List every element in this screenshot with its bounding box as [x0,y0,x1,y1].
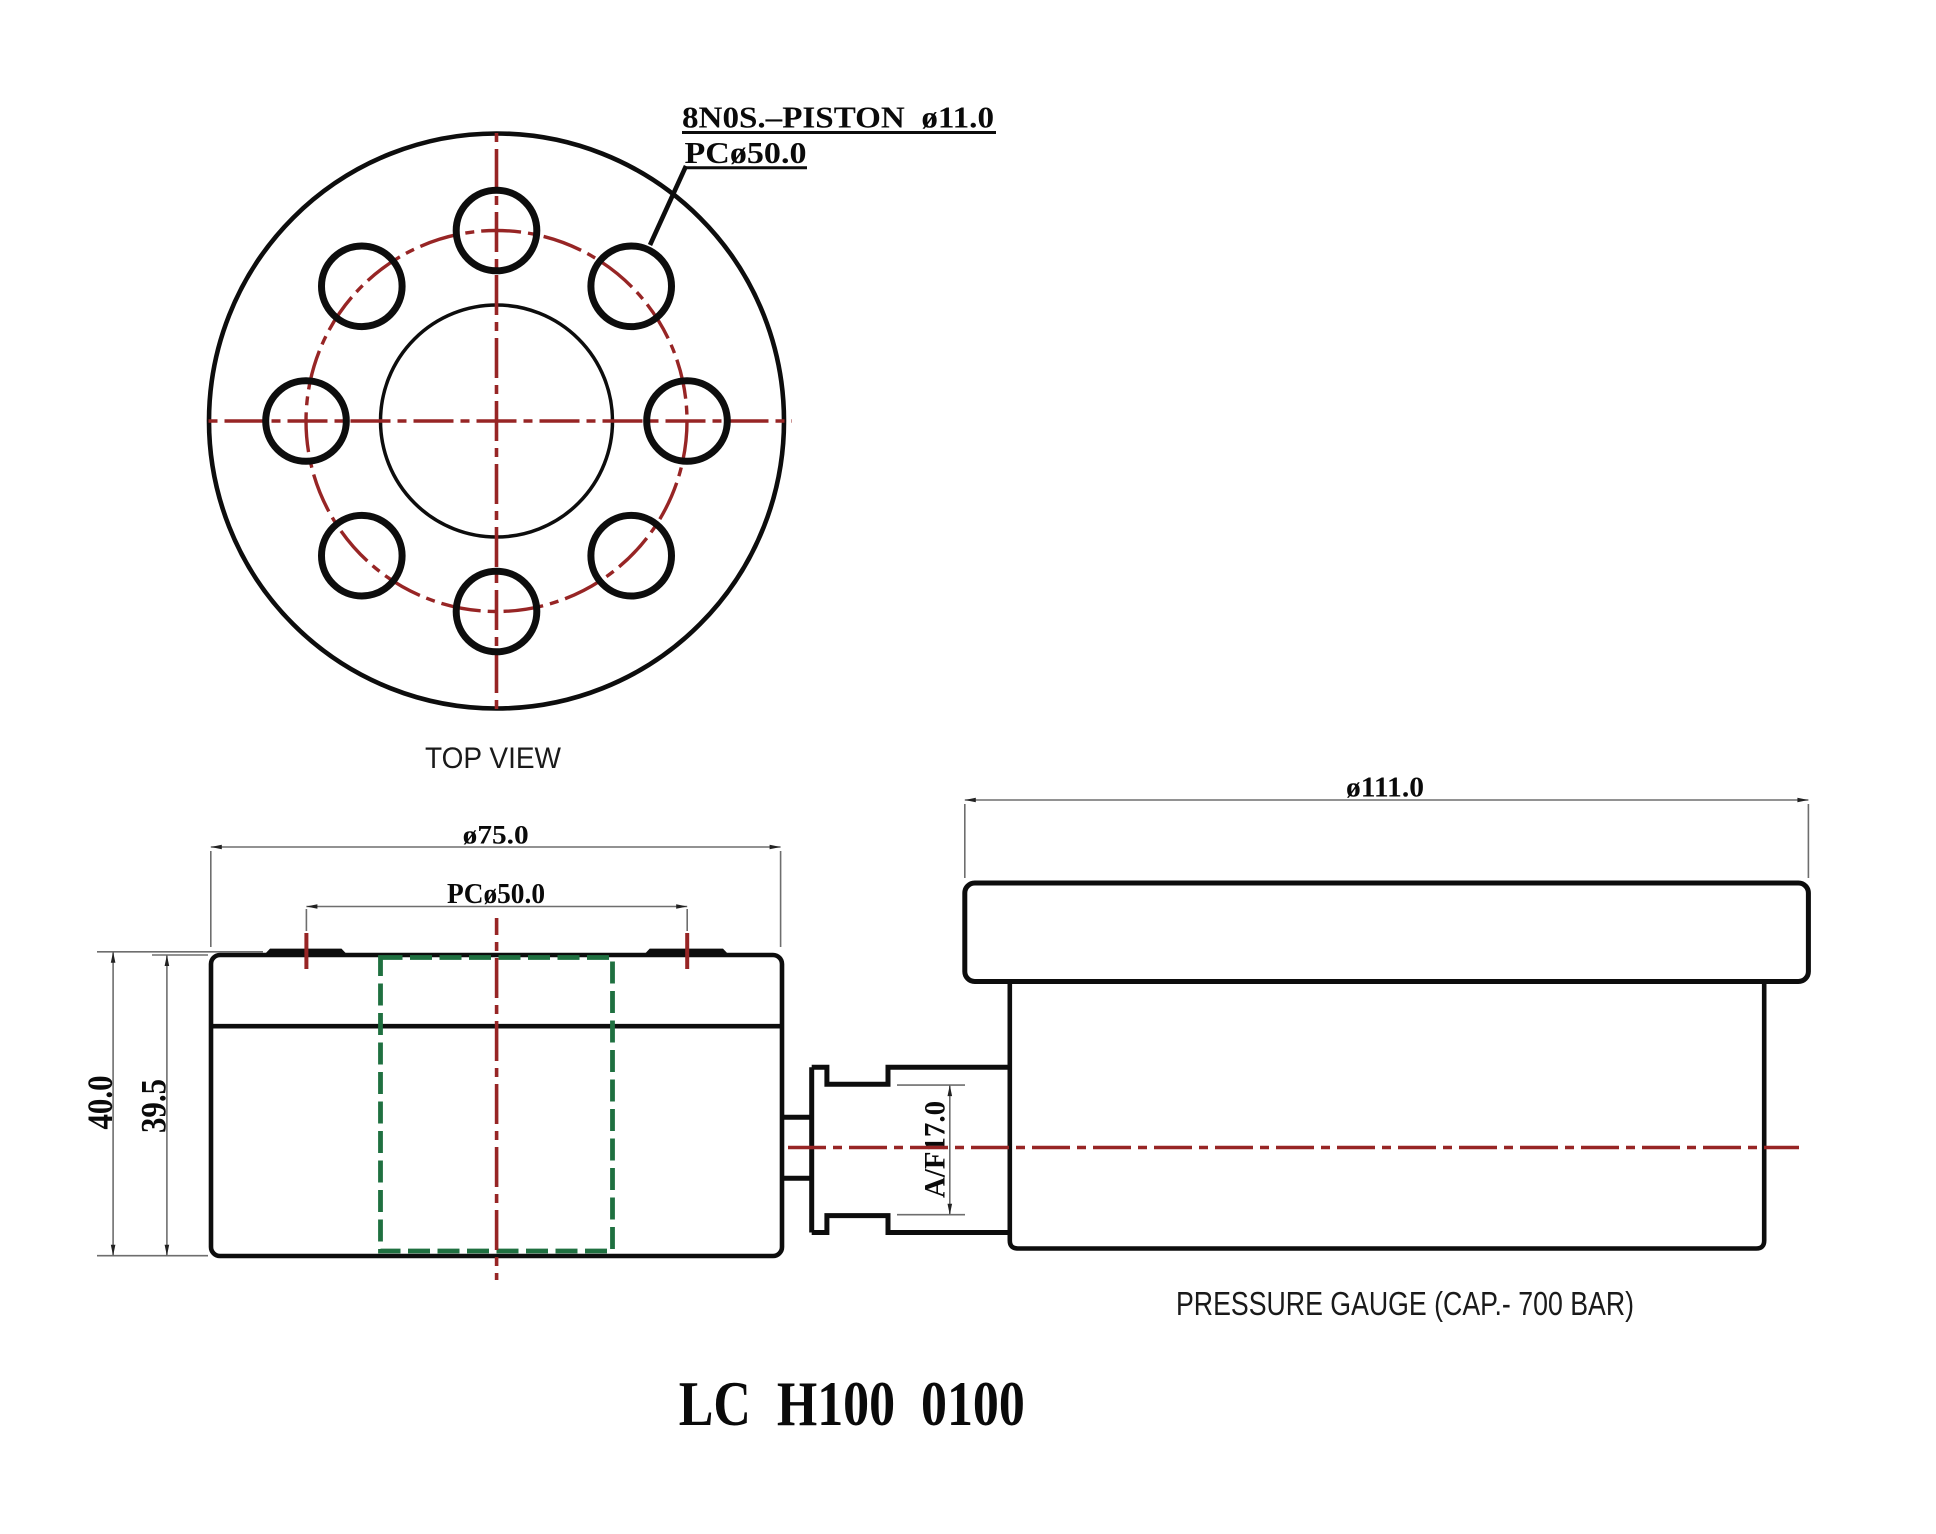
svg-text:PCø50.0: PCø50.0 [447,879,545,910]
dimension ø75.0 extension line left [210,851,212,947]
dimension 40.0 arrows [111,952,116,963]
dimension 39.5 arrows [165,955,170,966]
note underline 2 [684,166,807,169]
pitch circle PC50 (red dash-dot) [306,231,687,612]
svg-text:40.0: 40.0 [80,1076,120,1130]
dimension 40.0/39.5 extension bottom [97,1255,208,1257]
note underline 1 [682,131,996,134]
svg-text:A/F17.0: A/F17.0 [919,1101,952,1198]
cap separation line [211,1024,782,1029]
dimension 40.0 line [112,952,114,1256]
dimension ø75.0 arrows [211,845,222,850]
svg-text:PCø50.0: PCø50.0 [685,135,807,170]
horizontal centerline of top view [207,419,792,423]
side view vertical centerline (red) [495,918,499,1280]
dimension ø75.0 extension line right [780,851,782,947]
svg-text:39.5: 39.5 [134,1079,174,1133]
dimension A/F17.0 arrows [948,1085,953,1096]
piston hole N [456,190,537,271]
gauge horizontal centerline (red) [788,1146,1799,1150]
top view outer circle [209,134,784,709]
svg-text:8N0S.–PISTON ø11.0: 8N0S.–PISTON ø11.0 [682,100,994,135]
dimension PCø50.0 extension line left [305,909,307,931]
dimension PCø50.0 line [306,906,687,908]
dimension 40.0 extension top [97,951,263,953]
svg-text:PRESSURE GAUGE (CAP.- 700 BAR): PRESSURE GAUGE (CAP.- 700 BAR) [1176,1285,1634,1322]
load cell body outline [211,955,782,1256]
nipple between load cell and nut [782,1115,812,1120]
PC mark tick right (red) [685,933,689,969]
vertical centerline of top view [495,131,499,712]
hidden bore rectangle (green dashed) [381,958,613,1252]
PC mark tick left (red) [304,933,308,969]
dimension 39.5 line [166,955,168,1256]
gauge body [1010,982,1764,1249]
svg-text:TOP VIEW: TOP VIEW [425,742,561,775]
dimension A/F17.0 extension bottom [897,1214,965,1216]
dimension PCø50.0 arrows [306,904,317,909]
dimension ø111.0 extension left [964,804,966,878]
piston hole W [266,381,347,462]
dimension A/F17.0 line [949,1085,951,1215]
piston hole NE [591,246,672,327]
top view inner bore circle [381,305,613,537]
dimension ø75.0 line [211,846,781,848]
svg-text:LC H100 0100: LC H100 0100 [679,1369,1025,1439]
piston hole SW [322,515,403,596]
piston hole E [647,381,728,462]
coupling nut outline [812,1067,1010,1232]
piston bump left [264,949,348,955]
dimension ø111.0 line [965,799,1809,801]
piston hole SE [591,515,672,596]
gauge top cap [965,883,1809,982]
piston bump right [644,949,729,955]
dimension 39.5 extension top [152,954,208,956]
dimension ø111.0 arrows [965,798,976,803]
dimension PCø50.0 extension line right [686,909,688,931]
svg-text:ø75.0: ø75.0 [463,821,529,850]
dimension ø111.0 extension right [1807,804,1809,878]
note leader line to NE hole [650,166,686,245]
piston hole NW [322,246,403,327]
piston hole S [456,571,537,652]
svg-text:ø111.0: ø111.0 [1346,772,1424,804]
dimension A/F17.0 extension top [897,1084,965,1086]
